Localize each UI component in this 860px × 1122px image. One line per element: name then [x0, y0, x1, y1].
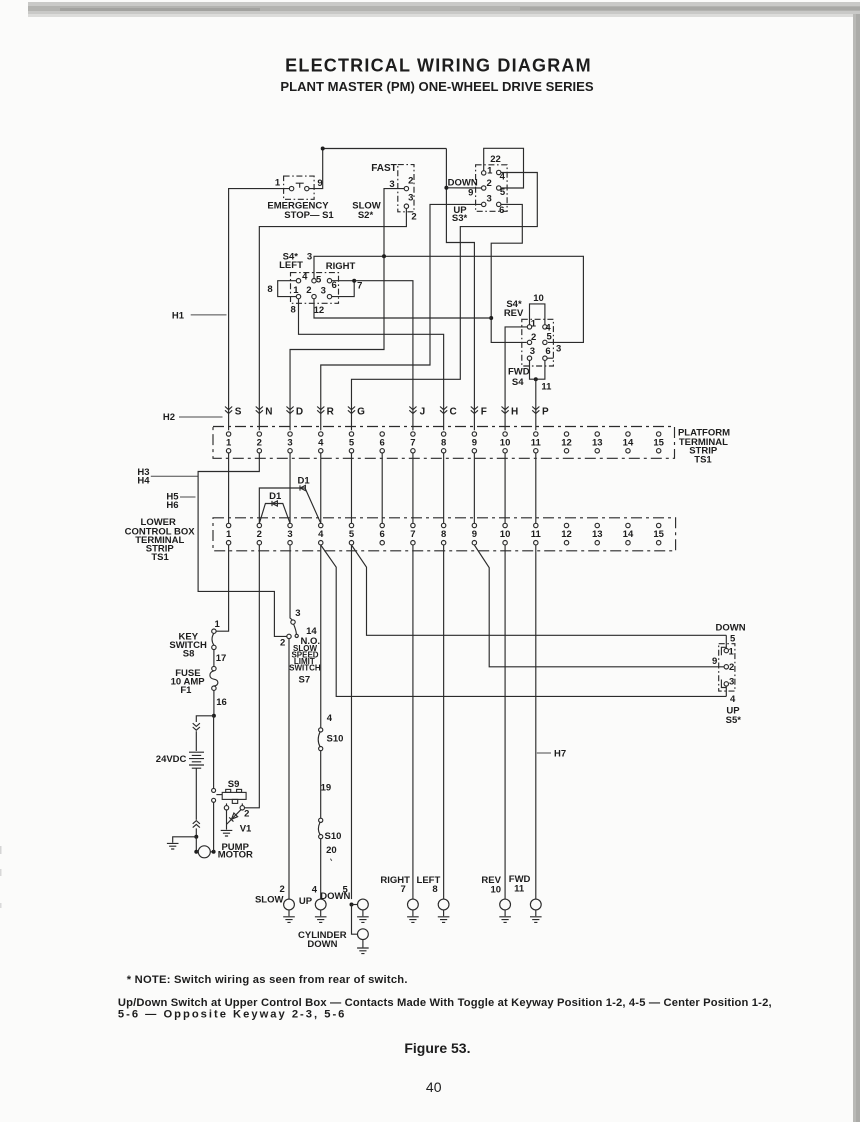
svg-text:3: 3	[287, 529, 292, 540]
svg-text:DOWN: DOWN	[307, 939, 337, 950]
svg-text:24VDC: 24VDC	[156, 754, 187, 765]
lower strip terminal 3	[287, 523, 292, 545]
svg-text:1: 1	[293, 285, 299, 296]
harness connector chevron, wire C	[440, 407, 447, 414]
wire platform t1 to lower t1	[228, 453, 230, 523]
label RIGHT 7	[380, 875, 410, 895]
lower strip terminal 1	[226, 523, 232, 545]
svg-text:4: 4	[500, 172, 506, 183]
svg-text:1: 1	[275, 178, 281, 189]
solenoid coil RIGHT	[407, 899, 419, 922]
platform strip terminal 12	[561, 432, 572, 453]
wire lower t1 to key switch	[216, 545, 229, 631]
wire lower t3 to S7 pin3	[290, 545, 293, 620]
svg-text:S: S	[235, 407, 242, 418]
wire lower t5 slant to S5 pin1 line	[351, 545, 726, 635]
wire to chassis ground	[173, 837, 197, 843]
junction dot ground branch	[194, 835, 198, 839]
S4LR pin label 12	[314, 305, 325, 316]
S2 pin label 2 bottom	[411, 212, 416, 223]
wire lower t9 jog to S5 pin2	[474, 545, 724, 667]
solenoid coil UP	[315, 899, 327, 922]
S4RF label 10	[533, 293, 544, 304]
S7 pin label 3	[295, 608, 300, 619]
svg-text:2: 2	[244, 809, 249, 820]
svg-text:7: 7	[401, 884, 406, 895]
scan artifact: right gray band	[853, 14, 860, 1122]
S4LR pin 5 contact	[312, 279, 316, 283]
battery bottom connector chevrons	[193, 821, 200, 828]
lower strip terminal 7	[410, 523, 415, 545]
harness connector chevron, wire N	[256, 407, 263, 414]
S8 pin label 1	[215, 619, 221, 630]
svg-text:FWD: FWD	[508, 367, 530, 378]
net label R	[327, 407, 335, 418]
svg-text:2: 2	[531, 332, 536, 343]
svg-text:5: 5	[730, 633, 736, 644]
junction node 7 on loop	[352, 279, 356, 283]
S8 pin label 16	[216, 697, 227, 708]
H7 pointer tick	[537, 752, 551, 754]
label S4* REV	[504, 299, 524, 319]
wire D column down	[290, 256, 384, 430]
S4RF jumper loop 11 pin3-pin6	[530, 360, 545, 379]
label H7	[554, 749, 566, 760]
svg-text:11: 11	[514, 884, 525, 895]
label H3	[137, 467, 149, 478]
svg-text:5: 5	[316, 274, 322, 285]
S7 pin label 2	[280, 638, 285, 649]
wire battery bottom down	[195, 768, 197, 820]
S4RF pin 5 contact	[543, 340, 547, 344]
switch S2 dashed box	[398, 165, 414, 212]
wire lower t4 slant to S5 pin3 line	[321, 545, 727, 696]
H5/H6 pointer line	[180, 496, 196, 498]
S5 pin label 5	[730, 633, 736, 644]
S2 pin label 2 right	[408, 176, 413, 187]
net label C	[450, 407, 457, 418]
platform strip terminal 9	[472, 432, 477, 453]
S3 label 22	[490, 154, 501, 165]
svg-text:4: 4	[327, 713, 333, 724]
label H6	[166, 500, 178, 511]
label D1 upper	[298, 476, 311, 487]
S5 pin 3 contact	[724, 682, 728, 686]
svg-text:11: 11	[541, 381, 552, 392]
S3 pin label 5	[500, 187, 506, 198]
svg-text:3: 3	[408, 193, 413, 204]
switch S4 left-right dashed box	[291, 273, 339, 304]
S4RF pin label 5	[547, 332, 553, 343]
svg-text:1: 1	[226, 438, 232, 449]
net label S	[235, 407, 242, 418]
svg-text:1: 1	[531, 319, 537, 330]
platform strip terminal 3	[287, 432, 292, 453]
svg-text:S9: S9	[228, 779, 240, 790]
label RIGHT	[326, 261, 356, 272]
fuse F1 symbol	[210, 666, 218, 690]
switch S4 rev-fwd dashed box	[522, 319, 554, 366]
svg-text:13: 13	[592, 529, 603, 540]
svg-text:Figure 53.: Figure 53.	[404, 1040, 470, 1056]
svg-text:STOP— S1: STOP— S1	[284, 210, 334, 221]
diode D1 lower arch t2-t3	[259, 501, 290, 523]
svg-text:6: 6	[380, 529, 385, 540]
svg-text:S3*: S3*	[452, 213, 468, 224]
platform strip terminal 15	[653, 432, 664, 453]
S3 pin label 4	[500, 172, 506, 183]
S2 pin label 3 lower	[408, 193, 413, 204]
platform strip terminal 8	[441, 432, 446, 453]
platform strip terminal 11	[531, 432, 542, 453]
S4RF pin 2 contact	[527, 340, 531, 344]
wire node11 to P column	[535, 379, 537, 430]
wire lower t2 to S9	[245, 545, 260, 808]
S3 pin 6 contact	[497, 202, 501, 206]
label DOWN (S3)	[448, 177, 478, 188]
svg-text:S2*: S2*	[358, 210, 374, 221]
svg-text:19: 19	[321, 782, 332, 793]
svg-text:5: 5	[349, 529, 355, 540]
solenoid coil LEFT	[438, 899, 450, 922]
S4LR pin label 8 bottom	[291, 305, 296, 316]
label PLATFORM TERMINAL STRIP TS1	[678, 428, 730, 466]
lower strip terminal 6	[380, 523, 385, 545]
junction dot fuse/battery/motor node	[212, 714, 216, 718]
svg-text:40: 40	[426, 1079, 442, 1095]
label KEY SWITCH S8	[169, 632, 207, 660]
net label H	[511, 407, 518, 418]
switch S5 dashed box	[719, 644, 735, 691]
svg-text:1: 1	[215, 619, 221, 630]
svg-text:H2: H2	[163, 412, 175, 423]
S3 pin label 6	[499, 205, 504, 216]
wire S4LR pin1 to C column	[299, 299, 444, 430]
svg-text:2: 2	[257, 529, 262, 540]
S4LR pin label 2	[306, 285, 311, 296]
wire S1 pin9 riser to top rail	[309, 149, 446, 189]
label SLOW S2*	[352, 201, 381, 222]
svg-text:5: 5	[349, 438, 355, 449]
junction dot D-column on rail	[382, 254, 386, 258]
S4RF pin label 4	[545, 323, 551, 334]
svg-text:UP: UP	[299, 896, 313, 907]
svg-text:8: 8	[441, 529, 446, 540]
svg-text:2: 2	[306, 285, 311, 296]
svg-text:4: 4	[318, 438, 324, 449]
svg-text:5: 5	[547, 332, 553, 343]
wire S10-1 to S10-2	[320, 751, 322, 818]
svg-text:11: 11	[531, 529, 542, 540]
label S10 no.2	[325, 831, 342, 842]
harness connector chevron, wire H	[501, 407, 508, 414]
svg-text:14: 14	[623, 438, 634, 449]
solenoid coil REV	[499, 899, 511, 922]
lower strip terminal 5	[349, 523, 355, 545]
label FAST	[371, 163, 397, 174]
platform strip terminal 5	[349, 432, 355, 453]
svg-text:8: 8	[441, 438, 446, 449]
key switch S8 contacts	[212, 629, 216, 650]
svg-text:F: F	[481, 407, 487, 418]
svg-text:DOWN: DOWN	[448, 177, 478, 188]
svg-text:7: 7	[357, 280, 362, 291]
wire platform t8 to lower t8	[443, 453, 445, 523]
wire S7 pin2 down to SLOW coil	[288, 639, 290, 900]
stray tick	[330, 859, 331, 861]
svg-text:17: 17	[216, 653, 227, 664]
wire S3 pin3 to R column	[321, 204, 482, 430]
S5 pin1 stub up	[725, 635, 727, 648]
svg-text:5: 5	[500, 187, 506, 198]
wire lower t8 to LEFT coil	[443, 545, 445, 899]
wire down to cylinder-down coil	[352, 905, 358, 935]
svg-text:H6: H6	[166, 500, 178, 511]
net label J	[420, 407, 426, 418]
svg-text:J: J	[420, 407, 426, 418]
svg-text:MOTOR: MOTOR	[218, 849, 253, 860]
S4RF pin 4 contact	[543, 325, 547, 329]
pump motor M1 circle	[196, 846, 213, 858]
svg-text:3: 3	[530, 346, 535, 357]
label N.O. SLOW SPEED LIMIT SWITCH S7	[289, 636, 321, 685]
S3 pin 5 contact	[497, 186, 501, 190]
svg-text:2: 2	[411, 212, 416, 223]
wire S1 pin1 to S column	[229, 189, 290, 431]
junction dot DOWN branch	[350, 903, 354, 907]
wire platform t7 to lower t7	[412, 453, 414, 523]
svg-text:13: 13	[592, 438, 603, 449]
svg-text:1: 1	[487, 166, 493, 177]
label H1	[172, 311, 185, 322]
svg-text:LEFT: LEFT	[279, 260, 303, 271]
svg-text:D1: D1	[298, 476, 311, 487]
H2 pointer line	[179, 416, 223, 418]
S1 pin label 1	[275, 178, 281, 189]
svg-text:H4: H4	[137, 476, 150, 487]
junction node 11 on loop	[534, 377, 538, 381]
S4LR pin label 7	[357, 280, 362, 291]
label FWD S4 11	[508, 367, 552, 393]
wire S3 pin4 loop to G column	[351, 173, 537, 431]
S3 pin label 1	[487, 166, 493, 177]
svg-text:9: 9	[472, 438, 477, 449]
wire S9 contact up to junction	[213, 716, 215, 788]
harness connector chevron, wire J	[409, 407, 416, 414]
svg-text:G: G	[357, 407, 365, 418]
S7 pin label 14	[306, 626, 317, 637]
switch S1 emergency stop dashed box	[284, 176, 315, 199]
svg-text:H7: H7	[554, 749, 566, 760]
svg-text:14: 14	[306, 626, 317, 637]
svg-text:7: 7	[410, 529, 415, 540]
S5 pin 1 contact	[724, 648, 728, 652]
label H4	[137, 476, 150, 487]
svg-text:10: 10	[500, 529, 511, 540]
svg-text:3: 3	[729, 677, 734, 688]
svg-text:FAST: FAST	[371, 163, 397, 174]
wire node7 to J column	[354, 281, 413, 431]
wire chevron to ground node	[195, 828, 197, 836]
platform strip terminal 2	[257, 432, 262, 453]
svg-text:3: 3	[287, 438, 292, 449]
svg-text:10: 10	[533, 293, 544, 304]
label S4* LEFT	[279, 252, 303, 272]
S3 pin label 3	[487, 193, 492, 204]
label PUMP MOTOR	[218, 842, 253, 861]
net label N	[265, 407, 272, 418]
svg-text:5-6 — Opposite Keyway 2-3, 5-6: 5-6 — Opposite Keyway 2-3, 5-6	[118, 1009, 347, 1021]
wire platform t9 to lower t9	[473, 453, 475, 523]
junction dot node 12/R-net	[489, 316, 493, 320]
limit switch S10 no.2	[318, 818, 322, 839]
S4RF pin 1 contact	[527, 325, 531, 329]
S5 pin3 stub down	[725, 686, 727, 696]
svg-text:S5*: S5*	[726, 715, 742, 726]
platform strip terminal 4	[318, 432, 324, 453]
S4LR pin label 4	[302, 272, 308, 283]
svg-text:2: 2	[280, 884, 285, 895]
svg-text:D: D	[296, 407, 303, 418]
svg-text:P: P	[542, 407, 549, 418]
S4LR pin label 3 row2	[321, 286, 326, 297]
svg-text:20: 20	[326, 845, 337, 856]
S3 jumper loop 22 pin1-pin5	[484, 148, 524, 188]
svg-text:12: 12	[561, 529, 572, 540]
svg-text:SLOW: SLOW	[255, 895, 284, 906]
wire lower t11 to FWD coil	[535, 545, 537, 899]
wire platform t3 to lower t3	[289, 453, 291, 523]
svg-text:11: 11	[531, 438, 542, 449]
wire S4RF pin1 to H column	[505, 327, 527, 430]
svg-text:22: 22	[490, 154, 501, 165]
wire S2 pin2 to N column	[259, 208, 406, 430]
label REV 10	[481, 875, 501, 895]
svg-text:6: 6	[380, 438, 385, 449]
label 5 / DOWN	[320, 884, 350, 901]
lower strip terminal 10	[500, 523, 511, 545]
lower strip outline	[213, 518, 676, 551]
harness connector chevron, wire F	[471, 407, 478, 414]
harness connector chevron, wire P	[532, 407, 539, 414]
wire platform t5 to lower t5	[350, 453, 352, 523]
lower strip terminal 8	[441, 523, 446, 545]
label UP S3*	[452, 205, 468, 224]
svg-text:REV: REV	[504, 308, 524, 319]
S3 pin 3 contact	[482, 202, 486, 206]
svg-text:Up/Down Switch at Upper Contro: Up/Down Switch at Upper Control Box — Co…	[118, 997, 772, 1009]
H3/H4 pointer line	[151, 475, 198, 477]
label V1	[240, 824, 252, 835]
wire lower t10 to REV coil	[504, 545, 506, 899]
svg-text:ELECTRICAL WIRING DIAGRAM: ELECTRICAL WIRING DIAGRAM	[285, 56, 592, 76]
svg-text:S7: S7	[298, 675, 310, 686]
svg-text:2: 2	[257, 438, 262, 449]
caption Figure 53.	[404, 1040, 470, 1056]
label H2	[163, 412, 175, 423]
platform strip terminal 7	[410, 432, 415, 453]
svg-text:3: 3	[321, 286, 326, 297]
svg-text:8: 8	[267, 284, 272, 295]
S4RF pin label 3	[530, 346, 535, 357]
S9 left pin	[224, 803, 228, 810]
wire fuse to junction	[213, 690, 215, 715]
S1 pin 9 contact	[305, 186, 309, 190]
S3 pin 4 contact	[497, 170, 501, 174]
note line 2	[118, 997, 772, 1009]
svg-text:N: N	[265, 407, 272, 418]
wire DOWN net: top rail down to F column	[446, 149, 474, 431]
wire S3 pin6 to S4RF pin2	[491, 204, 527, 342]
net label D	[296, 407, 303, 418]
S5 pin label 2	[729, 662, 734, 673]
svg-text:15: 15	[653, 529, 664, 540]
S10 upper label 4	[327, 713, 333, 724]
svg-text:1: 1	[226, 529, 232, 540]
harness connector chevron, wire G	[348, 407, 355, 414]
lower strip terminal 4	[318, 523, 324, 545]
V1 ground symbol	[221, 830, 233, 836]
wire DOWN dot to S3 pin2	[446, 187, 481, 189]
svg-text:15: 15	[653, 438, 664, 449]
svg-text:TS1: TS1	[694, 455, 712, 466]
svg-text:3: 3	[487, 193, 492, 204]
wire S8 to fuse	[213, 650, 215, 667]
S4RF pin 3 contact	[527, 356, 531, 360]
net label G	[357, 407, 365, 418]
wire platform t10 to lower t10	[504, 453, 506, 523]
platform strip outline	[213, 427, 675, 459]
S1 pushbutton symbol	[296, 183, 304, 188]
scan specks left edge	[0, 846, 2, 908]
label D1 lower	[269, 491, 282, 502]
svg-text:C: C	[450, 407, 457, 418]
wire lower t5 down (DOWN solenoid circuit)	[350, 545, 352, 899]
wire chevron to battery	[195, 731, 197, 751]
svg-text:8: 8	[432, 884, 437, 895]
svg-text:12: 12	[314, 305, 325, 316]
lower strip terminal 11	[531, 523, 542, 545]
switch S3 dashed box	[476, 165, 508, 212]
junction dot DOWN node	[444, 186, 448, 190]
label LOWER CONTROL BOX TERMINAL STRIP TS1	[125, 517, 196, 563]
S9 right pin	[240, 803, 244, 810]
limit switch S10 no.1	[318, 728, 323, 751]
S4LR pin label 5	[316, 274, 322, 285]
platform strip terminal 6	[380, 432, 385, 453]
lower strip terminal 13	[592, 523, 603, 545]
svg-text:9: 9	[472, 529, 477, 540]
S7 pin2 contact	[287, 634, 291, 638]
svg-text:R: R	[327, 407, 335, 418]
svg-text:4: 4	[312, 884, 318, 895]
svg-text:1: 1	[729, 647, 735, 658]
svg-text:6: 6	[499, 205, 504, 216]
svg-text:14: 14	[623, 529, 634, 540]
wire S4LR pin2 to junction	[314, 299, 491, 318]
solenoid coil SLOW	[283, 899, 295, 922]
net label F	[481, 407, 487, 418]
wire motor up through S9 contact	[213, 803, 215, 852]
relay S9 body	[222, 789, 246, 803]
junction dot motor right terminal	[212, 850, 216, 854]
svg-text:3: 3	[295, 608, 300, 619]
svg-text:D1: D1	[269, 491, 282, 502]
wire S10-2 down to UP coil	[320, 839, 322, 899]
svg-text:10: 10	[491, 884, 502, 895]
lower strip terminal 9	[472, 523, 477, 545]
svg-text:3: 3	[307, 252, 312, 263]
